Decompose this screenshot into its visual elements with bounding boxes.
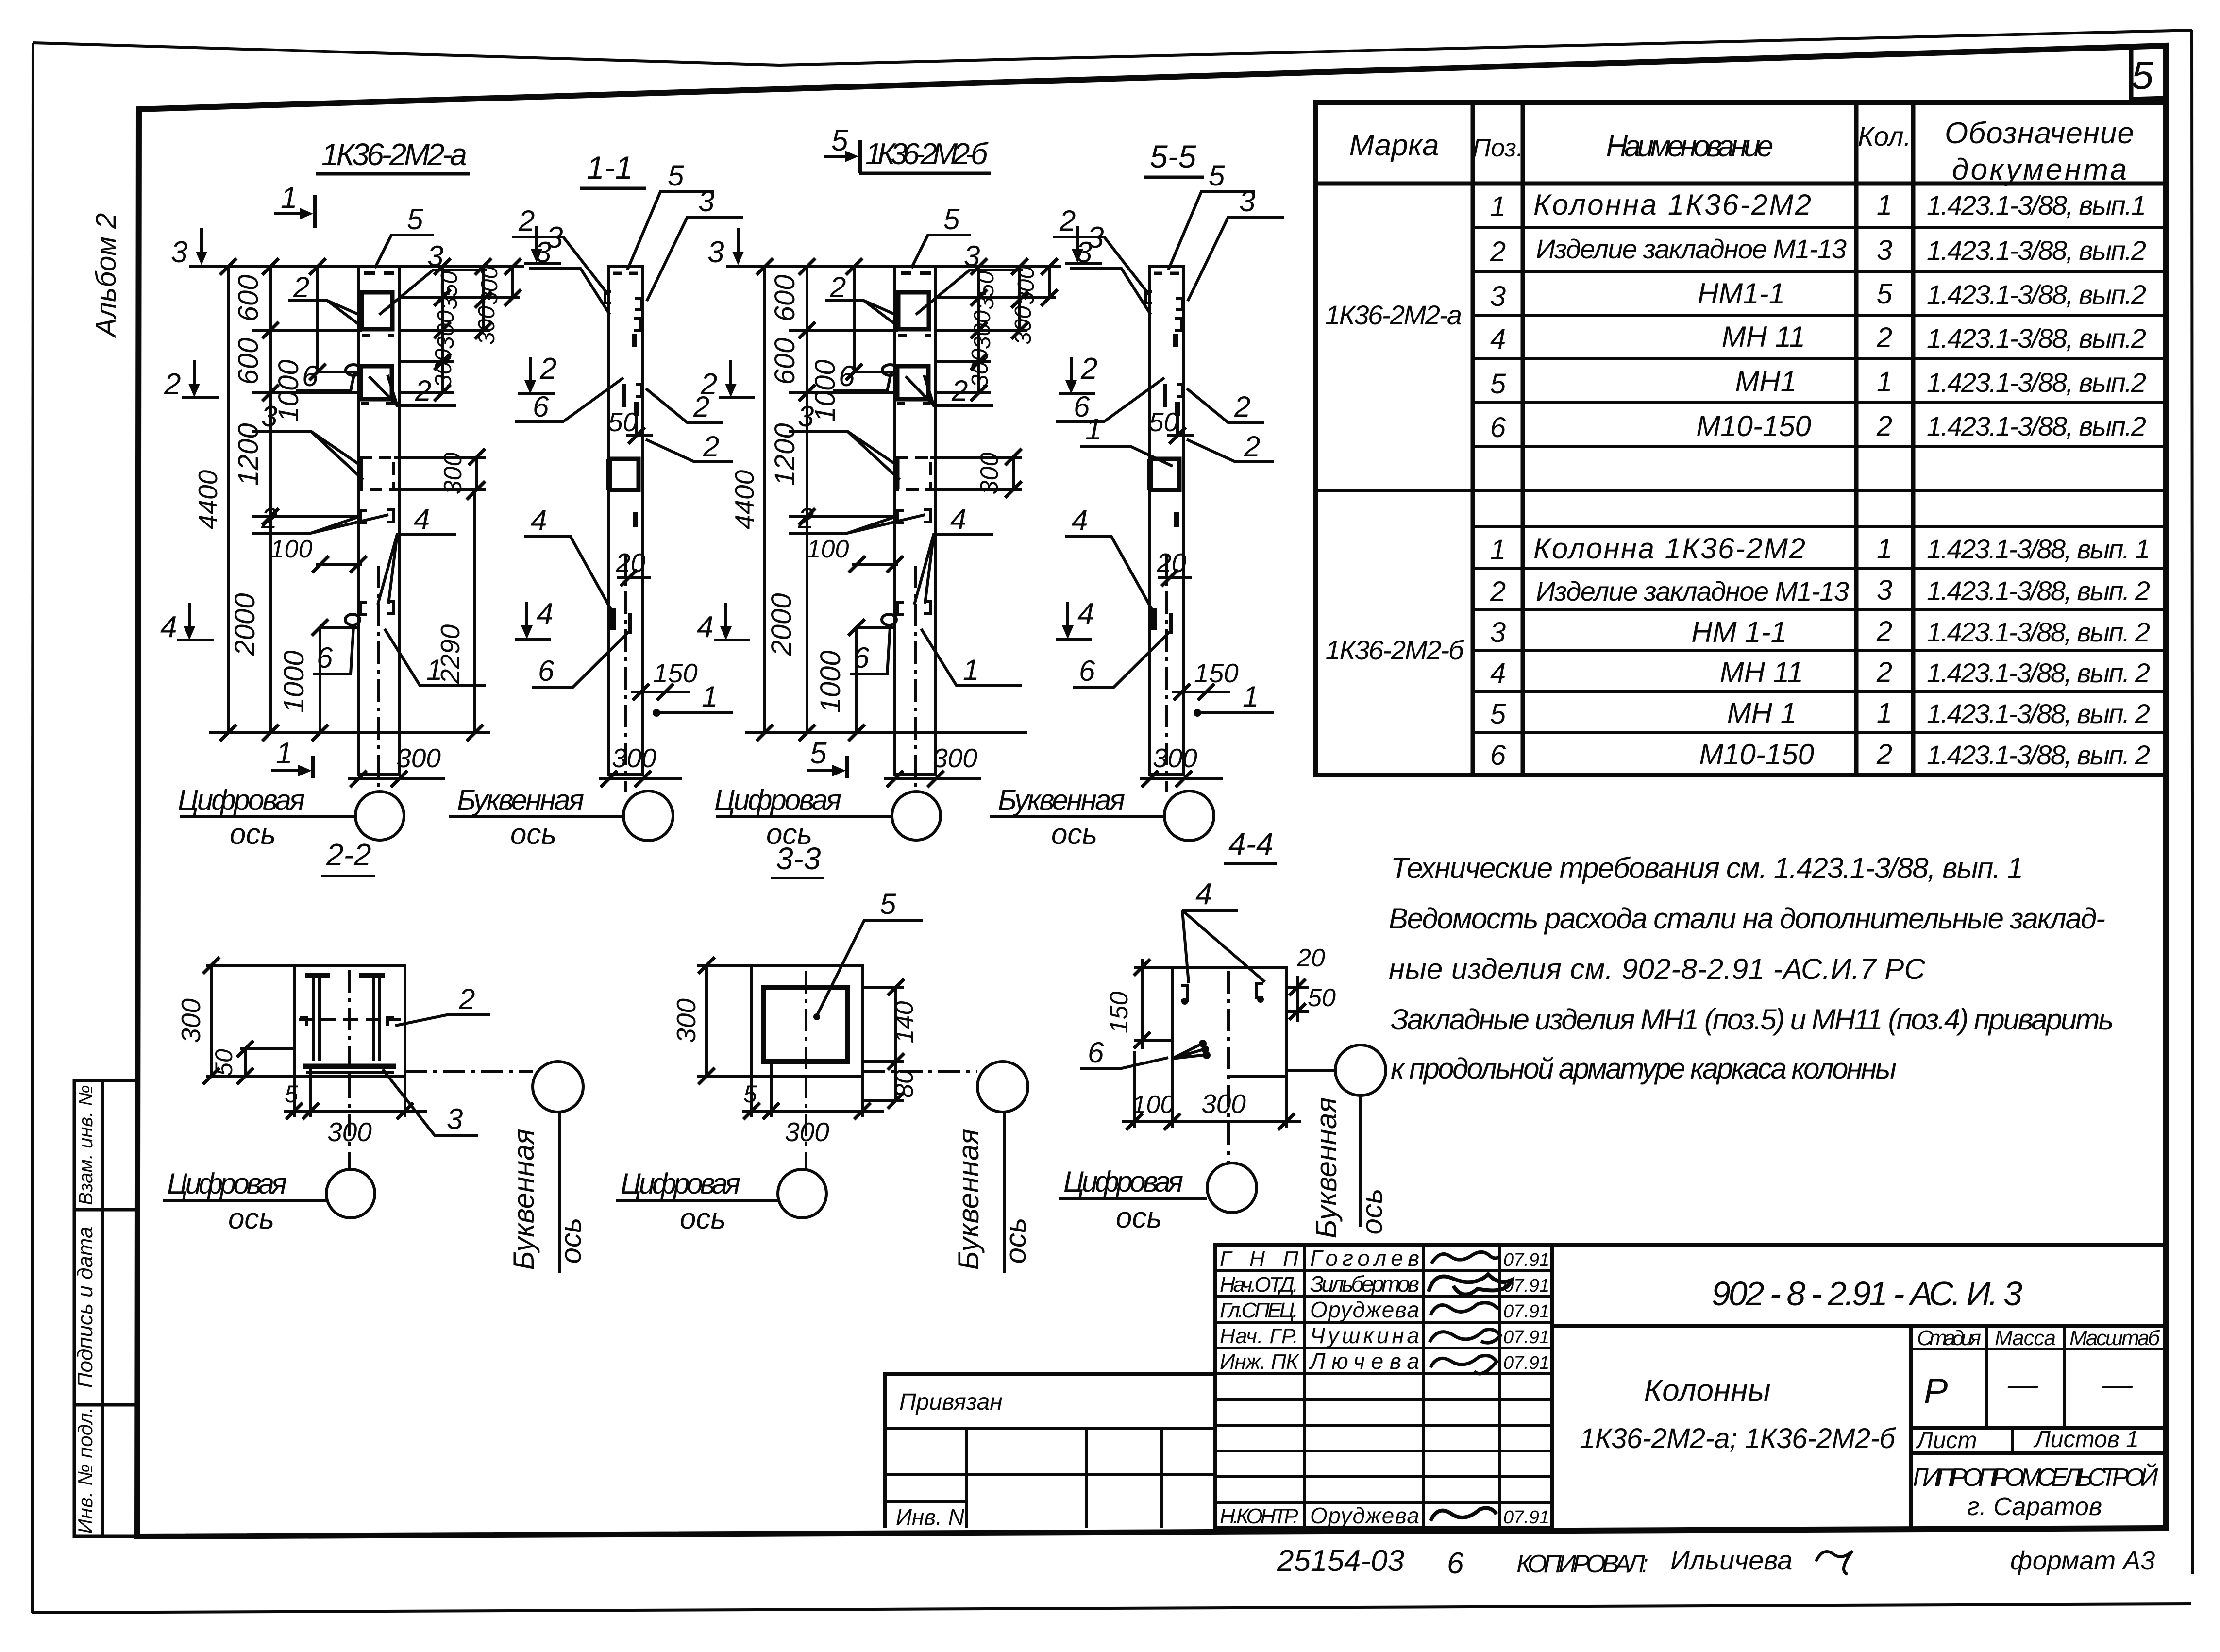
svg-text:Ильичева: Ильичева: [1670, 1545, 1793, 1575]
svg-text:Листов 1: Листов 1: [2033, 1427, 2139, 1452]
svg-text:Гл.СПЕЦ.: Гл.СПЕЦ.: [1220, 1298, 1298, 1322]
svg-text:Инв. N: Инв. N: [896, 1504, 965, 1530]
svg-text:ось: ось: [1356, 1189, 1388, 1235]
svg-text:07.91: 07.91: [1503, 1301, 1549, 1322]
svg-text:1.423.1-3/88, вып.2: 1.423.1-3/88, вып.2: [1927, 279, 2146, 310]
svg-text:Колонна 1К36-2М2: Колонна 1К36-2М2: [1533, 532, 1805, 565]
svg-text:к продольной арматуре карка: к продольной арматуре каркаса колонны: [1391, 1052, 1897, 1085]
svg-text:2: 2: [261, 502, 277, 535]
svg-text:3: 3: [698, 185, 714, 218]
svg-text:Взам. инв. №: Взам. инв. №: [75, 1085, 97, 1205]
svg-text:1.423.1-3/88, вып. 2: 1.423.1-3/88, вып. 2: [1927, 698, 2150, 729]
svg-text:Буквенная: Буквенная: [457, 784, 584, 816]
svg-text:20: 20: [615, 548, 646, 578]
svg-text:1.423.1-3/88, вып. 2: 1.423.1-3/88, вып. 2: [1927, 617, 2150, 647]
svg-text:Стадия: Стадия: [1917, 1326, 1981, 1350]
svg-text:Р: Р: [1924, 1371, 1948, 1411]
svg-text:4: 4: [537, 597, 553, 631]
svg-text:600: 600: [233, 275, 264, 322]
svg-text:3: 3: [1877, 235, 1892, 266]
svg-text:—: —: [2007, 1368, 2038, 1401]
svg-text:1: 1: [702, 680, 718, 713]
svg-text:Закладные изделия МН1 (поз.5: Закладные изделия МН1 (поз.5) и МН11 (по…: [1391, 1003, 2114, 1036]
svg-text:150: 150: [653, 658, 698, 688]
svg-text:2: 2: [1490, 236, 1506, 268]
svg-text:07.91: 07.91: [1503, 1327, 1549, 1348]
svg-text:Цифровая: Цифровая: [621, 1167, 740, 1200]
svg-text:МН 1: МН 1: [1727, 697, 1797, 729]
svg-text:300: 300: [1201, 1089, 1246, 1119]
svg-text:ось: ось: [680, 1202, 726, 1235]
svg-text:5: 5: [1490, 698, 1506, 730]
svg-text:350: 350: [437, 271, 462, 310]
svg-text:5-5: 5-5: [1150, 138, 1196, 174]
svg-text:300: 300: [477, 266, 503, 305]
svg-text:ные изделия см. 902-8-2.91: ные изделия см. 902-8-2.91 -АС.И.7 РС: [1389, 953, 1926, 985]
svg-text:5: 5: [1490, 368, 1506, 400]
svg-text:Нач.ОТД.: Нач.ОТД.: [1220, 1273, 1298, 1297]
svg-text:1: 1: [1877, 366, 1892, 398]
svg-text:100: 100: [1132, 1091, 1175, 1119]
svg-text:Наименование: Наименование: [1606, 130, 1774, 163]
svg-text:100: 100: [270, 535, 313, 563]
svg-text:2: 2: [703, 430, 719, 463]
svg-text:Нач. ГР.: Нач. ГР.: [1220, 1324, 1298, 1348]
svg-text:М10-150: М10-150: [1699, 738, 1814, 771]
svg-text:Инв. № подл.: Инв. № подл.: [74, 1407, 97, 1534]
svg-text:Колонна 1К36-2М2: Колонна 1К36-2М2: [1533, 188, 1811, 221]
svg-text:5: 5: [743, 1080, 757, 1108]
svg-text:2: 2: [164, 368, 181, 401]
svg-text:2-2: 2-2: [326, 837, 371, 872]
svg-text:2: 2: [1876, 322, 1892, 354]
svg-text:Цифровая: Цифровая: [1063, 1165, 1183, 1198]
svg-text:4: 4: [1490, 323, 1506, 355]
svg-text:2: 2: [1490, 576, 1506, 607]
svg-text:ось: ось: [1116, 1201, 1162, 1234]
svg-text:1.423.1-3/88, вып. 2: 1.423.1-3/88, вып. 2: [1927, 657, 2150, 688]
svg-text:МН1: МН1: [1735, 365, 1797, 398]
svg-text:ГИПРОПРОМСЕЛЬСТРОЙ: ГИПРОПРОМСЕЛЬСТРОЙ: [1913, 1463, 2159, 1492]
svg-text:2290: 2290: [435, 624, 465, 684]
svg-text:1.423.1-3/88, вып.2: 1.423.1-3/88, вып.2: [1927, 235, 2146, 266]
svg-text:50: 50: [608, 407, 638, 437]
svg-text:600: 600: [233, 338, 264, 385]
svg-text:5: 5: [880, 888, 896, 920]
svg-text:6: 6: [302, 360, 319, 392]
svg-text:ось: ось: [555, 1218, 587, 1264]
svg-text:4-4: 4-4: [1228, 826, 1274, 861]
svg-text:1К36-2М2-б: 1К36-2М2-б: [865, 137, 989, 171]
svg-text:3: 3: [546, 221, 563, 254]
svg-text:Оруджева: Оруджева: [1310, 1297, 1419, 1322]
svg-text:6: 6: [317, 641, 333, 674]
svg-text:1К36-2М2-а: 1К36-2М2-а: [1325, 300, 1462, 330]
svg-text:Оруджева: Оруджева: [1310, 1503, 1419, 1528]
svg-text:6: 6: [1088, 1036, 1104, 1069]
svg-text:2: 2: [693, 390, 709, 423]
svg-text:3: 3: [427, 240, 443, 272]
svg-text:902 - 8 - 2.91 - АС. И. 3: 902 - 8 - 2.91 - АС. И. 3: [1712, 1275, 2022, 1313]
svg-text:3: 3: [1490, 617, 1506, 648]
svg-text:3: 3: [447, 1103, 463, 1135]
svg-text:МН 11: МН 11: [1722, 320, 1805, 353]
svg-text:Альбом 2: Альбом 2: [90, 213, 122, 338]
svg-text:Цифровая: Цифровая: [167, 1167, 287, 1200]
svg-text:Буквенная: Буквенная: [507, 1129, 540, 1270]
svg-text:3: 3: [1877, 574, 1892, 606]
svg-text:4400: 4400: [193, 470, 223, 529]
svg-text:5: 5: [407, 203, 423, 236]
svg-text:4: 4: [1195, 877, 1212, 911]
svg-text:Поз.: Поз.: [1473, 134, 1524, 162]
svg-text:07.91: 07.91: [1503, 1353, 1549, 1373]
svg-text:1.423.1-3/88, вып.2: 1.423.1-3/88, вып.2: [1927, 367, 2146, 398]
svg-text:Цифровая: Цифровая: [178, 784, 305, 816]
svg-text:г. Саратов: г. Саратов: [1967, 1493, 2102, 1521]
svg-text:3: 3: [261, 400, 277, 433]
svg-text:1000: 1000: [278, 650, 310, 713]
svg-text:Подпись и дата: Подпись и дата: [73, 1227, 97, 1388]
svg-text:300: 300: [431, 349, 456, 388]
svg-text:2: 2: [1876, 657, 1892, 688]
svg-text:300: 300: [396, 743, 441, 773]
svg-text:1К36-2М2-а: 1К36-2М2-а: [321, 137, 467, 172]
svg-text:4: 4: [1490, 657, 1506, 689]
svg-text:2: 2: [518, 204, 535, 237]
svg-text:Буквенная: Буквенная: [952, 1129, 985, 1270]
svg-text:Колонны: Колонны: [1644, 1373, 1770, 1408]
svg-text:3-3: 3-3: [776, 841, 821, 876]
svg-text:1: 1: [1877, 533, 1892, 565]
svg-text:2: 2: [1876, 616, 1892, 647]
svg-text:2: 2: [415, 374, 431, 407]
svg-text:1: 1: [1085, 413, 1102, 446]
svg-text:300: 300: [176, 998, 206, 1043]
svg-text:4: 4: [160, 610, 177, 644]
svg-text:1.423.1-3/88, вып. 2: 1.423.1-3/88, вып. 2: [1927, 575, 2150, 606]
svg-text:07.91: 07.91: [1503, 1507, 1549, 1528]
svg-text:Лист: Лист: [1916, 1428, 1977, 1453]
svg-text:3: 3: [171, 236, 187, 269]
svg-text:1К36-2М2-а; 1К36-2М2-б: 1К36-2М2-а; 1К36-2М2-б: [1580, 1423, 1896, 1454]
svg-text:Технические требования см. 1: Технические требования см. 1.423.1-3/88,…: [1391, 852, 2023, 884]
svg-text:80: 80: [891, 1070, 919, 1098]
svg-text:1.423.1-3/88, вып. 2: 1.423.1-3/88, вып. 2: [1927, 740, 2150, 770]
svg-text:2: 2: [293, 271, 309, 303]
svg-text:6: 6: [533, 390, 549, 423]
svg-text:Н.КОНТР.: Н.КОНТР.: [1220, 1504, 1298, 1528]
svg-text:25154-03: 25154-03: [1277, 1544, 1404, 1578]
svg-text:5: 5: [810, 737, 827, 770]
svg-text:документа: документа: [1952, 153, 2127, 186]
svg-text:300: 300: [439, 453, 467, 495]
svg-text:Обозначение: Обозначение: [1945, 117, 2134, 150]
svg-text:2000: 2000: [229, 593, 261, 656]
svg-text:1: 1: [1877, 189, 1892, 221]
svg-text:ось: ось: [228, 1202, 274, 1235]
svg-text:6: 6: [538, 655, 555, 687]
svg-text:1-1: 1-1: [587, 150, 633, 185]
svg-text:1.423.1-3/88, вып. 1: 1.423.1-3/88, вып. 1: [1927, 534, 2150, 564]
svg-text:Ведомость расхода стали на: Ведомость расхода стали на дополнительны…: [1389, 902, 2105, 935]
svg-text:формат А3: формат А3: [2010, 1546, 2155, 1575]
svg-text:50: 50: [210, 1049, 237, 1076]
svg-text:1: 1: [276, 737, 292, 770]
svg-text:300: 300: [671, 998, 701, 1043]
svg-text:300: 300: [612, 743, 656, 773]
svg-text:1: 1: [1490, 191, 1506, 222]
svg-text:НМ1-1: НМ1-1: [1698, 277, 1785, 310]
svg-text:5: 5: [2131, 53, 2153, 98]
svg-text:МН 11: МН 11: [1720, 656, 1803, 689]
svg-text:Привязан: Привязан: [899, 1389, 1003, 1415]
svg-text:НМ 1-1: НМ 1-1: [1691, 616, 1787, 648]
svg-text:20: 20: [1296, 944, 1325, 972]
svg-text:300: 300: [474, 306, 500, 345]
svg-text:1.423.1-3/88, вып.2: 1.423.1-3/88, вып.2: [1927, 323, 2146, 354]
svg-text:Буквенная: Буквенная: [1310, 1097, 1343, 1239]
svg-text:1: 1: [281, 181, 297, 215]
svg-text:2: 2: [1876, 410, 1892, 442]
svg-text:КОПИРОВАЛ:: КОПИРОВАЛ:: [1516, 1550, 1648, 1578]
svg-text:1К36-2М2-б: 1К36-2М2-б: [1326, 635, 1465, 665]
svg-text:Марка: Марка: [1349, 129, 1439, 162]
svg-text:150: 150: [1105, 992, 1133, 1034]
svg-text:5: 5: [1877, 278, 1893, 310]
svg-text:1: 1: [1490, 534, 1506, 566]
svg-text:6: 6: [1447, 1547, 1464, 1580]
svg-text:—: —: [2102, 1368, 2133, 1401]
svg-text:Изделие закладное М1-13: Изделие закладное М1-13: [1536, 234, 1847, 264]
svg-text:300: 300: [433, 310, 459, 349]
svg-text:Гоголев: Гоголев: [1310, 1246, 1419, 1271]
svg-text:4: 4: [414, 503, 430, 536]
svg-text:1.423.1-3/88, вып.2: 1.423.1-3/88, вып.2: [1927, 411, 2146, 441]
svg-text:5: 5: [668, 159, 684, 192]
svg-text:3: 3: [1490, 281, 1506, 312]
svg-text:2: 2: [458, 983, 475, 1015]
svg-text:Кол.: Кол.: [1858, 121, 1911, 152]
svg-text:07.91: 07.91: [1503, 1250, 1549, 1270]
svg-text:5: 5: [285, 1080, 298, 1108]
svg-text:Масштаб: Масштаб: [2069, 1326, 2161, 1350]
svg-text:Зильбертов: Зильбертов: [1310, 1271, 1419, 1297]
svg-text:6: 6: [1490, 412, 1506, 443]
svg-text:50: 50: [1308, 984, 1336, 1012]
svg-text:2: 2: [1876, 739, 1892, 770]
svg-text:6: 6: [1490, 740, 1506, 771]
svg-text:2: 2: [539, 352, 556, 386]
svg-text:Изделие закладное М1-13: Изделие закладное М1-13: [1536, 576, 1849, 607]
svg-text:ось: ось: [510, 818, 556, 850]
svg-text:ось: ось: [999, 1218, 1032, 1264]
svg-text:Масса: Масса: [1995, 1326, 2056, 1350]
svg-text:1: 1: [1877, 697, 1892, 729]
svg-text:М10-150: М10-150: [1696, 410, 1811, 442]
svg-text:4: 4: [531, 504, 547, 537]
svg-text:Инж. ПК: Инж. ПК: [1220, 1350, 1299, 1374]
svg-text:1.423.1-3/88, вып.1: 1.423.1-3/88, вып.1: [1927, 190, 2146, 220]
svg-text:ось: ось: [230, 818, 276, 850]
svg-text:140: 140: [891, 1001, 919, 1044]
